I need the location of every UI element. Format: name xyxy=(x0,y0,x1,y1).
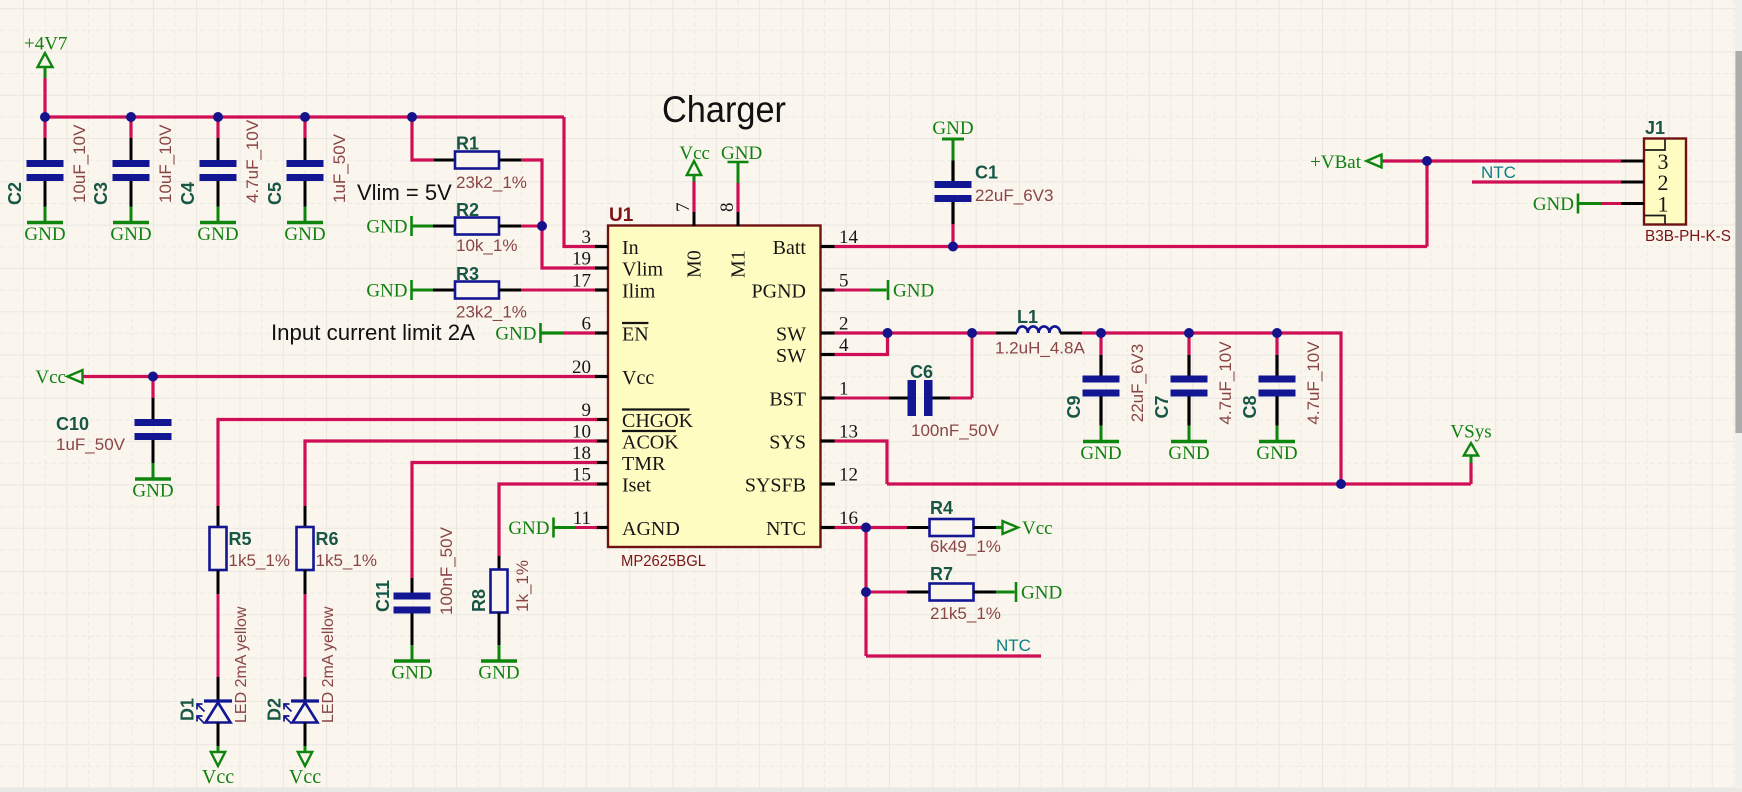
svg-text:LED 2mA yellow: LED 2mA yellow xyxy=(320,606,337,723)
lead D1 anode xyxy=(217,723,220,747)
local label GND at R3 xyxy=(366,280,411,302)
svg-text:GND: GND xyxy=(366,281,407,302)
lead R1 left xyxy=(434,159,455,162)
wire GND to R3 (green) xyxy=(412,289,434,292)
svg-text:D2: D2 xyxy=(265,698,285,721)
resistor R7 xyxy=(930,584,974,601)
svg-text:2: 2 xyxy=(839,314,849,335)
lead C8 bottom xyxy=(1275,397,1278,426)
svg-text:23k2_1%: 23k2_1% xyxy=(456,173,527,192)
wire to VSys xyxy=(1341,482,1471,485)
lead C5 bottom xyxy=(304,181,307,207)
svg-text:21k5_1%: 21k5_1% xyxy=(930,604,1001,623)
svg-text:R2: R2 xyxy=(456,200,479,220)
resistor R2 xyxy=(455,218,499,235)
capacitor C7 xyxy=(1171,376,1208,397)
svg-text:C3: C3 xyxy=(91,182,111,205)
wire +VBat to J1 pin 3 xyxy=(1383,159,1621,162)
svg-text:12: 12 xyxy=(839,465,858,486)
svg-text:NTC: NTC xyxy=(996,636,1031,655)
svg-text:4.7uF_10V: 4.7uF_10V xyxy=(1304,341,1323,425)
svg-text:C11: C11 xyxy=(373,580,393,612)
LED D1 xyxy=(197,701,232,724)
resistor R1 xyxy=(455,152,499,169)
svg-text:GND: GND xyxy=(391,663,432,684)
svg-text:M0: M0 xyxy=(684,250,706,278)
lead D2 anode xyxy=(304,723,307,747)
svg-text:GND: GND xyxy=(1256,443,1297,464)
svg-text:14: 14 xyxy=(839,227,859,248)
power symbol Vcc at pin 7 xyxy=(679,143,710,182)
local label GND at J1 xyxy=(1533,194,1578,216)
lead R7 right xyxy=(974,591,997,594)
junction C4 tap xyxy=(213,112,223,122)
svg-text:100nF_50V: 100nF_50V xyxy=(911,421,1000,440)
svg-text:GND: GND xyxy=(197,224,238,245)
svg-text:Vlim: Vlim xyxy=(622,259,664,281)
pin 7 stub xyxy=(693,212,696,226)
lead R6 bottom xyxy=(304,570,307,594)
svg-text:8: 8 xyxy=(717,203,738,213)
canvas bottom edge band xyxy=(0,789,1742,792)
wire GND to pin 8 xyxy=(736,183,739,212)
svg-text:Vcc: Vcc xyxy=(202,766,234,788)
lead R8 bottom xyxy=(498,613,501,646)
lead R3 left xyxy=(433,289,455,292)
svg-text:BST: BST xyxy=(769,389,806,411)
junction C3 tap xyxy=(126,112,136,122)
wire L1 to VSys rail xyxy=(1082,333,1341,484)
lead C8 top xyxy=(1275,355,1278,376)
svg-text:9: 9 xyxy=(582,400,592,421)
ground symbol GND below C4 xyxy=(197,207,238,246)
svg-text:GND: GND xyxy=(110,224,151,245)
lead C7 bottom xyxy=(1187,397,1190,426)
lead C1 top xyxy=(951,161,954,182)
svg-text:Ilim: Ilim xyxy=(622,281,656,303)
svg-text:C6: C6 xyxy=(910,362,933,382)
svg-text:NTC: NTC xyxy=(1481,163,1516,182)
wire bus to C3 xyxy=(129,117,132,138)
lead C7 top xyxy=(1187,355,1190,376)
svg-text:1.2uH_4.8A: 1.2uH_4.8A xyxy=(995,339,1085,358)
lead C3 bottom xyxy=(130,181,133,207)
svg-text:TMR: TMR xyxy=(622,453,666,475)
svg-text:6: 6 xyxy=(582,314,592,335)
lead C11 bottom xyxy=(411,614,414,646)
junction NTC branch xyxy=(861,523,871,533)
wire R6 to D2 xyxy=(304,594,307,677)
wire pin 15 Iset to R8 xyxy=(499,484,597,556)
svg-text:1uF_50V: 1uF_50V xyxy=(330,133,349,203)
wire GND to AGND (green) xyxy=(554,526,576,529)
local label GND at pin 8 xyxy=(721,143,762,183)
capacitor C9 xyxy=(1083,376,1120,397)
junction C1 tap xyxy=(948,242,958,252)
junction C9 tap xyxy=(1096,328,1106,338)
lead C9 bottom xyxy=(1099,397,1102,426)
svg-text:SW: SW xyxy=(776,345,806,367)
lead R2 left xyxy=(433,225,455,228)
power label +VBat xyxy=(1310,152,1384,173)
pin 6 stub xyxy=(595,331,608,334)
lead R5 bottom xyxy=(217,570,220,594)
power symbol VSys xyxy=(1450,422,1491,464)
wire NTC to J1 pin 2 xyxy=(1472,180,1621,183)
wire bus to pin 3 In xyxy=(564,117,597,247)
wire PGND to GND (green) xyxy=(870,289,887,292)
pin 1 stub xyxy=(821,396,836,399)
svg-text:D1: D1 xyxy=(178,698,198,721)
wire input bus xyxy=(45,115,564,118)
pin 16 stub xyxy=(821,526,836,529)
lead R4 left xyxy=(907,526,930,529)
svg-text:R7: R7 xyxy=(930,564,953,584)
wire pin 2 SW to L1 xyxy=(835,331,997,334)
pin 12 stub xyxy=(821,482,836,485)
svg-text:R6: R6 xyxy=(316,529,339,549)
wire pin 5 PGND xyxy=(835,289,871,292)
capacitor C2 xyxy=(27,160,64,181)
svg-text:Input current limit 2A: Input current limit 2A xyxy=(271,320,475,345)
svg-text:R5: R5 xyxy=(229,529,252,549)
svg-text:GND: GND xyxy=(478,663,519,684)
svg-text:C9: C9 xyxy=(1064,395,1084,418)
pin 15 stub xyxy=(595,482,608,485)
capacitor C10 xyxy=(135,419,172,440)
wire R5 to D1 xyxy=(217,594,220,677)
svg-text:GND: GND xyxy=(1168,443,1209,464)
pin 2 stub xyxy=(821,331,836,334)
svg-text:18: 18 xyxy=(572,443,591,464)
lead C5 top xyxy=(304,138,307,160)
pin 9 stub xyxy=(595,418,608,421)
wire GND (green) xyxy=(1578,202,1602,205)
capacitor C5 xyxy=(287,160,324,181)
connector J1 body xyxy=(1644,139,1686,225)
wire bus to C5 xyxy=(303,117,306,138)
svg-text:GND: GND xyxy=(132,481,173,502)
connector J1 top notch xyxy=(1645,140,1665,151)
lead C2 bottom xyxy=(44,181,47,207)
lead C4 bottom xyxy=(217,181,220,207)
wire GND to EN (green) xyxy=(541,331,564,334)
svg-text:PGND: PGND xyxy=(752,281,806,303)
svg-text:U1: U1 xyxy=(609,205,634,226)
junction C5 tap xyxy=(300,112,310,122)
svg-text:10: 10 xyxy=(572,422,591,443)
local label GND at R2 xyxy=(366,216,411,238)
svg-text:AGND: AGND xyxy=(622,518,680,540)
ground symbol GND above C1 xyxy=(932,118,973,161)
svg-text:GND: GND xyxy=(1533,194,1574,215)
ground symbol GND below C3 xyxy=(110,207,151,246)
power symbol Vcc below D2 xyxy=(289,746,321,788)
capacitor C6 xyxy=(908,380,933,416)
lead C4 top xyxy=(217,138,220,160)
J1 pin 1 stub xyxy=(1621,202,1644,205)
svg-text:22uF_6V3: 22uF_6V3 xyxy=(1128,344,1147,422)
lead R5 top xyxy=(217,506,220,527)
wire Vcc to pin 7 xyxy=(692,182,695,213)
svg-text:4: 4 xyxy=(839,335,849,356)
lead D1 cathode xyxy=(217,677,220,700)
wire C1 to Batt xyxy=(951,224,954,247)
capacitor C4 xyxy=(200,160,237,181)
local label GND at AGND xyxy=(508,518,553,540)
junction C8 tap xyxy=(1272,328,1282,338)
power label Vcc (left) xyxy=(35,367,85,388)
svg-text:20: 20 xyxy=(572,357,591,378)
svg-text:C2: C2 xyxy=(5,182,25,205)
svg-text:LED 2mA yellow: LED 2mA yellow xyxy=(233,606,250,723)
svg-text:10k_1%: 10k_1% xyxy=(456,236,517,255)
pin 8 stub xyxy=(737,212,740,226)
wire +4V7 to bus xyxy=(43,78,46,117)
svg-text:GND: GND xyxy=(1080,443,1121,464)
lead R2 right xyxy=(499,225,521,228)
lead L1 left xyxy=(996,332,1017,335)
ground symbol GND below C10 xyxy=(132,463,173,502)
svg-text:CHGOK: CHGOK xyxy=(622,410,694,432)
wire R1/R2 node to pin 19 Vlim xyxy=(521,160,597,268)
svg-text:GND: GND xyxy=(24,224,65,245)
lead C9 top xyxy=(1099,355,1102,376)
svg-text:+VBat: +VBat xyxy=(1310,152,1362,173)
svg-text:C7: C7 xyxy=(1152,395,1172,418)
ground symbol GND below C5 xyxy=(284,207,325,246)
svg-text:C8: C8 xyxy=(1240,395,1260,418)
lead C1 bottom xyxy=(951,202,954,224)
lead C10 top xyxy=(152,398,155,419)
svg-text:17: 17 xyxy=(572,271,591,292)
ground symbol GND below C9 xyxy=(1080,426,1121,465)
svg-text:Charger: Charger xyxy=(662,89,786,130)
power symbol Vcc below D1 xyxy=(202,746,234,788)
svg-text:1uF_50V: 1uF_50V xyxy=(56,435,126,454)
ground symbol GND below C2 xyxy=(24,207,65,246)
svg-text:1k5_1%: 1k5_1% xyxy=(316,551,377,570)
svg-text:C10: C10 xyxy=(56,414,89,434)
svg-text:3: 3 xyxy=(582,227,592,248)
wire pin 18 TMR to C11 xyxy=(412,463,597,579)
svg-text:+4V7: +4V7 xyxy=(24,34,67,55)
junction R7 branch xyxy=(861,587,871,597)
wire C6 up to SW rail xyxy=(971,333,974,398)
svg-text:J1: J1 xyxy=(1645,118,1665,138)
pin 11 stub xyxy=(595,526,608,529)
lead R6 top xyxy=(304,506,307,527)
resistor R4 xyxy=(930,519,974,536)
junction R2 output xyxy=(537,221,547,231)
pin 3 stub xyxy=(595,245,608,248)
wire NTC net to label xyxy=(866,654,1041,657)
wire pin 4 SW xyxy=(835,333,888,355)
lead C6 right xyxy=(933,397,951,400)
lead C10 bottom xyxy=(152,440,155,463)
wire C6 to SW xyxy=(950,397,972,400)
svg-text:GND: GND xyxy=(495,324,536,345)
wire bus to R1 xyxy=(412,117,434,160)
inductor L1 xyxy=(1017,326,1060,333)
local label GND at R7 xyxy=(1016,582,1062,604)
lead R8 top xyxy=(498,556,501,570)
ground symbol GND below C7 xyxy=(1168,426,1209,465)
svg-text:22uF_6V3: 22uF_6V3 xyxy=(975,186,1053,205)
svg-text:NTC: NTC xyxy=(766,518,806,540)
svg-text:4.7uF_10V: 4.7uF_10V xyxy=(1216,341,1235,425)
svg-text:10uF_10V: 10uF_10V xyxy=(70,124,89,203)
local label GND at PGND xyxy=(888,280,934,302)
svg-text:7: 7 xyxy=(673,203,694,213)
wire SW rail to C8 xyxy=(1275,333,1278,355)
svg-text:C4: C4 xyxy=(178,182,198,205)
lead R4 right xyxy=(974,526,997,529)
svg-text:13: 13 xyxy=(839,422,858,443)
wire R3 to pin 17 Ilim xyxy=(521,289,597,292)
svg-text:GND: GND xyxy=(1021,583,1062,604)
wire to J1 pin 1 xyxy=(1602,202,1621,205)
svg-text:Vlim = 5V: Vlim = 5V xyxy=(357,180,452,205)
svg-text:EN: EN xyxy=(622,324,649,346)
svg-text:R8: R8 xyxy=(469,589,489,612)
svg-text:4.7uF_10V: 4.7uF_10V xyxy=(243,119,262,203)
J1 pin 2 stub xyxy=(1621,181,1644,184)
svg-text:Vcc: Vcc xyxy=(622,367,654,389)
svg-text:SYSFB: SYSFB xyxy=(745,475,806,497)
power label Vcc at R4 xyxy=(996,518,1053,539)
connector J1 bottom notch xyxy=(1645,216,1665,224)
svg-text:GND: GND xyxy=(366,217,407,238)
lead R3 right xyxy=(499,289,521,292)
wire to R7 xyxy=(866,591,907,594)
svg-text:Batt: Batt xyxy=(773,237,807,259)
lead L1 right xyxy=(1060,332,1082,335)
svg-text:GND: GND xyxy=(893,281,934,302)
pin 18 stub xyxy=(595,461,608,464)
capacitor C8 xyxy=(1259,376,1296,397)
pin 19 stub xyxy=(595,266,608,269)
svg-text:15: 15 xyxy=(572,465,591,486)
svg-text:SW: SW xyxy=(776,324,806,346)
wire to pin 11 AGND xyxy=(575,526,597,529)
wire Vcc to C10 xyxy=(151,377,154,399)
power symbol +4V7 xyxy=(24,34,67,79)
svg-text:MP2625BGL: MP2625BGL xyxy=(621,553,706,570)
junction +VBat branch xyxy=(1422,156,1432,166)
svg-text:GND: GND xyxy=(508,518,549,539)
capacitor C1 xyxy=(935,181,972,202)
svg-text:Vcc: Vcc xyxy=(35,367,66,388)
scrollbar track right edge xyxy=(1735,0,1742,792)
svg-text:1: 1 xyxy=(839,379,849,400)
resistor R5 xyxy=(210,527,227,570)
wire GND to R2 (green) xyxy=(412,225,434,228)
svg-text:100nF_50V: 100nF_50V xyxy=(437,526,456,615)
svg-text:Iset: Iset xyxy=(622,475,651,497)
wire SW rail to C7 xyxy=(1187,333,1190,355)
junction input bus / C2 xyxy=(40,112,50,122)
svg-text:Vcc: Vcc xyxy=(289,766,321,788)
svg-text:R3: R3 xyxy=(456,264,479,284)
wire R7 to GND (green) xyxy=(996,591,1015,594)
pin 13 stub xyxy=(821,439,836,442)
resistor R3 xyxy=(455,282,499,299)
scrollbar thumb xyxy=(1735,51,1742,433)
junction C6 branch xyxy=(967,328,977,338)
svg-text:In: In xyxy=(622,237,639,259)
svg-text:23k2_1%: 23k2_1% xyxy=(456,303,527,322)
wire pin 1 BST to C6 xyxy=(835,397,890,400)
svg-text:1k5_1%: 1k5_1% xyxy=(229,551,290,570)
junction C10 tap xyxy=(148,372,158,382)
wire SW rail to C9 xyxy=(1099,333,1102,355)
svg-text:Vcc: Vcc xyxy=(1022,518,1053,539)
junction VSys rail xyxy=(1336,479,1346,489)
lead C3 top xyxy=(130,138,133,160)
svg-text:C5: C5 xyxy=(265,182,285,205)
capacitor C3 xyxy=(113,160,150,181)
svg-text:R4: R4 xyxy=(930,498,953,518)
J1 pin 3 stub xyxy=(1621,160,1644,163)
wire VSys riser xyxy=(1469,463,1472,484)
resistor R8 xyxy=(491,570,508,613)
pin 14 stub xyxy=(821,245,836,248)
ground symbol GND below C8 xyxy=(1256,426,1297,465)
junction SW pins xyxy=(883,328,893,338)
wire NTC vertical xyxy=(864,528,867,657)
svg-text:C1: C1 xyxy=(975,163,998,183)
svg-text:R1: R1 xyxy=(456,134,479,154)
wire SYSFB rail xyxy=(887,482,1341,485)
svg-text:11: 11 xyxy=(573,508,591,529)
wire Vcc rail to pin 20 xyxy=(84,375,597,378)
lead R1 right xyxy=(499,159,521,162)
svg-text:GND: GND xyxy=(932,118,973,139)
svg-text:B3B-PH-K-S: B3B-PH-K-S xyxy=(1645,228,1731,245)
svg-text:GND: GND xyxy=(284,224,325,245)
svg-text:SYS: SYS xyxy=(769,432,806,454)
pin 5 stub xyxy=(821,288,836,291)
junction R1 branch xyxy=(407,112,417,122)
wire pin 13 SYS down xyxy=(835,441,888,484)
svg-text:VSys: VSys xyxy=(1450,422,1491,443)
wire bus to C2 xyxy=(43,117,46,138)
junction C7 tap xyxy=(1184,328,1194,338)
capacitor C11 xyxy=(394,593,431,614)
svg-text:19: 19 xyxy=(572,249,591,270)
svg-text:ACOK: ACOK xyxy=(622,432,679,454)
local label GND at EN xyxy=(495,323,540,345)
wire +VBat down to Batt xyxy=(1425,161,1428,247)
svg-text:5: 5 xyxy=(839,271,849,292)
wire pin 14 Batt to +VBat xyxy=(835,245,1428,248)
pin 10 stub xyxy=(595,439,608,442)
wire R2 to node xyxy=(521,225,542,228)
ground symbol GND below C11 xyxy=(391,645,432,684)
IC U1 MP2625BGL body xyxy=(608,226,821,548)
ground symbol GND below R8 xyxy=(478,645,519,684)
lead C2 top xyxy=(44,138,47,160)
lead R7 left xyxy=(907,591,930,594)
svg-text:10uF_10V: 10uF_10V xyxy=(156,124,175,203)
resistor R6 xyxy=(297,527,314,570)
wire to pin 6 EN xyxy=(563,331,596,334)
svg-text:M1: M1 xyxy=(728,250,750,278)
LED D2 xyxy=(284,701,319,724)
svg-text:L1: L1 xyxy=(1017,307,1038,327)
svg-text:6k49_1%: 6k49_1% xyxy=(930,537,1001,556)
